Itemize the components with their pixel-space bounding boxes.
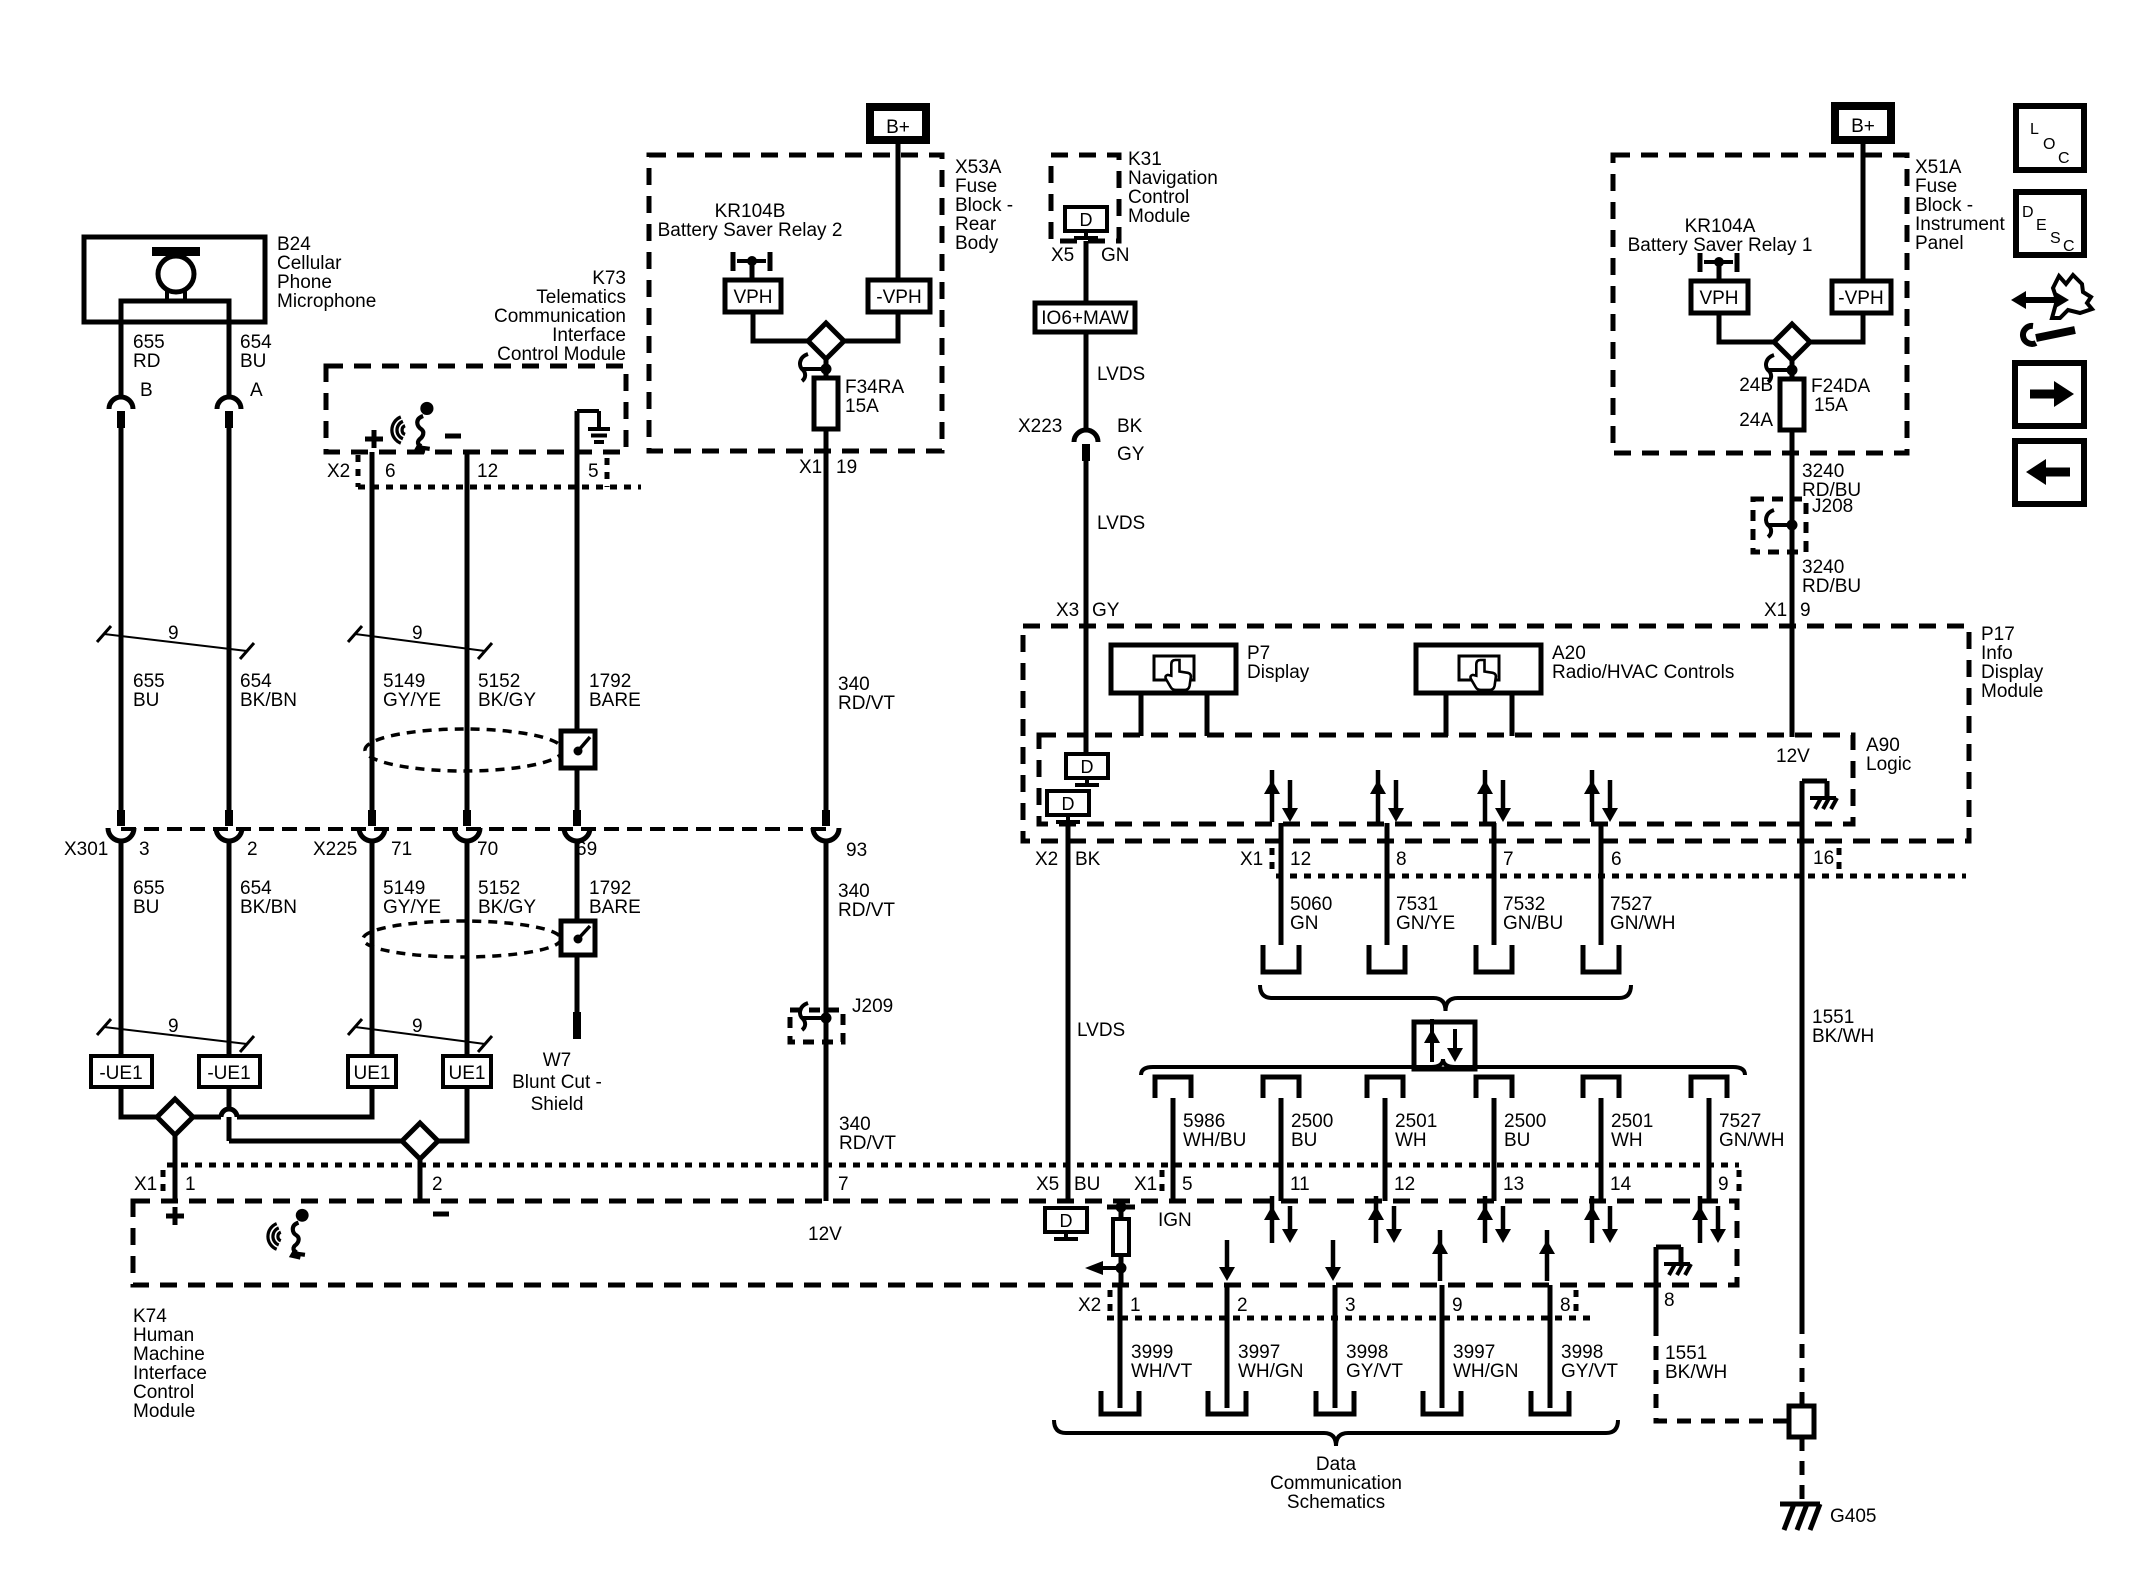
- svg-text:340: 340: [838, 881, 870, 902]
- wire 1792 BARE lower segment: [575, 842, 580, 1012]
- terminal above 5986 WH/BU pin 5: [1155, 1077, 1191, 1098]
- gathering brace lower: [1054, 1420, 1618, 1446]
- svg-text:5152: 5152: [478, 671, 520, 692]
- shield ellipse lower: [363, 921, 561, 957]
- svg-text:14: 14: [1610, 1174, 1632, 1195]
- svg-text:12V: 12V: [808, 1224, 842, 1245]
- svg-text:X2: X2: [1078, 1295, 1101, 1316]
- twisted pair mark upper left: [97, 626, 111, 642]
- svg-text:15A: 15A: [1814, 395, 1848, 416]
- svg-text:WH/VT: WH/VT: [1131, 1361, 1193, 1382]
- wire 7531 GN/YE: [1385, 823, 1390, 945]
- svg-text:9: 9: [1800, 600, 1811, 621]
- svg-text:-VPH: -VPH: [1838, 288, 1883, 309]
- relay output box -VPH: [868, 280, 930, 312]
- svg-text:Navigation: Navigation: [1128, 168, 1218, 189]
- svg-text:16: 16: [1813, 848, 1834, 869]
- wire -VPH to diamond: [844, 312, 898, 341]
- terminal above 2500 BU pin 11: [1263, 1077, 1299, 1098]
- svg-text:BU: BU: [133, 897, 159, 918]
- icon box DESC: [2016, 192, 2084, 255]
- svg-text:B+: B+: [886, 117, 910, 138]
- svg-text:BU: BU: [1504, 1130, 1530, 1151]
- svg-text:D: D: [1080, 210, 1093, 230]
- svg-text:B24: B24: [277, 234, 311, 255]
- arrow to display: [1103, 1266, 1121, 1270]
- svg-text:5149: 5149: [383, 878, 425, 899]
- svg-text:Control Module: Control Module: [497, 344, 626, 365]
- svg-text:X223: X223: [1018, 416, 1062, 437]
- svg-text:J209: J209: [852, 996, 893, 1017]
- wire 655 BU segment: [119, 428, 124, 810]
- microphone B24 box: [84, 237, 265, 322]
- terminal above 2501 WH pin 12: [1367, 1077, 1403, 1098]
- svg-text:GN: GN: [1101, 245, 1130, 266]
- svg-text:RD/VT: RD/VT: [838, 900, 895, 921]
- wire 2501 WH to X1 pin 14: [1599, 1098, 1604, 1201]
- svg-text:655: 655: [133, 878, 165, 899]
- wire 1551 BK/WH from pin8: [1654, 1285, 1659, 1322]
- wire A20 legs: [1444, 693, 1449, 736]
- svg-text:1792: 1792: [589, 878, 631, 899]
- logic A90 box: [1039, 735, 1853, 824]
- svg-text:GN: GN: [1290, 913, 1319, 934]
- wire 5152 BK/GY lower segment: [465, 842, 470, 1056]
- terminal of 7531: [1369, 945, 1405, 972]
- icon box LOC: [2016, 106, 2084, 170]
- svg-text:9: 9: [412, 1016, 423, 1037]
- wire 1792 BARE upper segment: [575, 411, 580, 731]
- svg-text:Panel: Panel: [1915, 233, 1964, 254]
- svg-text:K31: K31: [1128, 149, 1162, 170]
- svg-text:X3: X3: [1056, 600, 1079, 621]
- CAN arrows K74 at 1385: [1374, 1196, 1379, 1243]
- svg-text:Microphone: Microphone: [277, 291, 376, 312]
- display icon D1 in A90: [1066, 754, 1108, 778]
- terminal code box -UE1 (wire 654): [199, 1056, 260, 1087]
- terminal of 5060: [1263, 945, 1299, 972]
- touch icon P7: [1154, 656, 1194, 680]
- svg-text:F24DA: F24DA: [1811, 376, 1870, 397]
- svg-text:X1: X1: [1240, 849, 1263, 870]
- fuse block X53A box: [649, 155, 942, 451]
- relay coil KR104A: [1698, 253, 1703, 272]
- fuse F24DA 15A: [1780, 379, 1804, 430]
- svg-text:Machine: Machine: [133, 1344, 205, 1365]
- CAN arrows K74 at 1494: [1483, 1196, 1488, 1243]
- svg-text:1551: 1551: [1812, 1007, 1854, 1028]
- resistor element below IGN: [1119, 1201, 1124, 1219]
- junction J208 box: [1753, 499, 1806, 552]
- plus terminal K73: [365, 437, 383, 442]
- wire 7527 GN/WH: [1599, 823, 1604, 945]
- wire 7532 GN/BU: [1492, 823, 1497, 945]
- module K74 box: [133, 1201, 1737, 1285]
- touch icon A20: [1459, 656, 1499, 680]
- svg-text:P7: P7: [1247, 643, 1270, 664]
- svg-text:15A: 15A: [845, 396, 879, 417]
- svg-text:BK: BK: [1117, 416, 1143, 437]
- wire from UE1 5152 to diamond2: [438, 1087, 467, 1141]
- svg-text:13: 13: [1503, 1174, 1524, 1195]
- svg-text:8: 8: [1396, 849, 1407, 870]
- terminal of 7527: [1583, 945, 1619, 972]
- wire 655 RD segment: [119, 322, 124, 397]
- wire A90 pin16 internal: [1800, 781, 1805, 876]
- svg-text:2: 2: [247, 839, 258, 860]
- svg-text:654: 654: [240, 332, 272, 353]
- power feed B+ (IP): [1835, 106, 1891, 140]
- svg-text:B: B: [140, 380, 153, 401]
- wire 3998 GY/VT (data): [1333, 1285, 1338, 1408]
- inline connector at X225 pin71: [368, 810, 376, 826]
- svg-text:W7: W7: [543, 1050, 572, 1071]
- svg-text:6: 6: [1611, 849, 1622, 870]
- power feed B+ (rear): [870, 107, 926, 140]
- svg-text:GY: GY: [1092, 600, 1120, 621]
- svg-text:X5: X5: [1036, 1174, 1059, 1195]
- wire 5060 GN: [1279, 823, 1284, 945]
- relay contact KR104A: [1787, 365, 1798, 376]
- svg-text:6: 6: [385, 461, 396, 482]
- wire from 654 to diamond2: [229, 1139, 402, 1144]
- svg-text:12V: 12V: [1776, 746, 1810, 767]
- svg-text:GY/YE: GY/YE: [383, 690, 441, 711]
- svg-text:5: 5: [1182, 1174, 1193, 1195]
- splice box: [1789, 1406, 1814, 1437]
- wire K74 ground to pin 8: [1654, 1247, 1659, 1285]
- bus arrows A90 at 1601: [1590, 770, 1595, 822]
- junction dot IGN wire: [1116, 1263, 1127, 1274]
- svg-text:X1: X1: [799, 457, 822, 478]
- svg-text:C: C: [2058, 150, 2070, 167]
- svg-text:7527: 7527: [1719, 1111, 1761, 1132]
- svg-text:Battery Saver Relay 1: Battery Saver Relay 1: [1628, 235, 1813, 256]
- connector X1 strip of K74: [167, 1163, 1739, 1168]
- svg-text:2: 2: [1237, 1295, 1248, 1316]
- twisted pair mark upper right: [348, 626, 362, 642]
- svg-text:LVDS: LVDS: [1097, 513, 1145, 534]
- svg-text:Radio/HVAC Controls: Radio/HVAC Controls: [1552, 662, 1734, 683]
- wire fuse to X1 pin9: [1790, 430, 1795, 626]
- relay output box -VPH (right): [1832, 281, 1891, 313]
- svg-text:WH/GN: WH/GN: [1453, 1361, 1518, 1382]
- svg-text:12: 12: [477, 461, 498, 482]
- svg-text:Display: Display: [1247, 662, 1310, 683]
- svg-text:12: 12: [1394, 1174, 1415, 1195]
- svg-text:7: 7: [1503, 849, 1514, 870]
- svg-text:BU: BU: [133, 690, 159, 711]
- wire K31 X5 GN: [1084, 241, 1089, 303]
- svg-text:K74: K74: [133, 1306, 167, 1327]
- svg-text:Block -: Block -: [1915, 195, 1973, 216]
- svg-text:-UE1: -UE1: [207, 1063, 250, 1084]
- wire from -UE1 to junction: [121, 1087, 157, 1117]
- svg-text:A90: A90: [1866, 735, 1900, 756]
- svg-text:7531: 7531: [1396, 894, 1438, 915]
- svg-text:-VPH: -VPH: [876, 287, 921, 308]
- shield box upper: [561, 731, 595, 768]
- fuse F34RA 15A: [814, 378, 838, 429]
- twisted pair mark lower right: [348, 1019, 362, 1035]
- CAN arrows K74 at 1281: [1270, 1196, 1275, 1243]
- CAN arrows K74 at 1601: [1590, 1196, 1595, 1243]
- splice diamond X53A: [808, 323, 844, 359]
- svg-text:Schematics: Schematics: [1287, 1492, 1385, 1513]
- twisted pair mark lower left: [97, 1019, 111, 1035]
- connector X2 strip of K74: [1107, 1316, 1590, 1321]
- gathering brace upper: [1260, 985, 1631, 1011]
- module K73 box: [326, 366, 626, 452]
- svg-text:IGN: IGN: [1158, 1210, 1192, 1231]
- svg-text:2500: 2500: [1291, 1111, 1333, 1132]
- wire X2 BK from D2: [1066, 821, 1071, 1201]
- svg-text:655: 655: [133, 332, 165, 353]
- svg-text:3998: 3998: [1561, 1342, 1603, 1363]
- terminal of 3998 (data): [1316, 1391, 1354, 1414]
- svg-text:GY/VT: GY/VT: [1561, 1361, 1618, 1382]
- display icon D in K31: [1065, 207, 1107, 231]
- fuse block X51A box: [1613, 155, 1907, 453]
- svg-text:Body: Body: [955, 233, 999, 254]
- svg-text:X1: X1: [1764, 600, 1787, 621]
- svg-text:70: 70: [477, 839, 498, 860]
- wire splice to G405: [1800, 1437, 1805, 1502]
- svg-text:BK/GY: BK/GY: [478, 690, 536, 711]
- svg-text:3: 3: [139, 839, 150, 860]
- wire diamond1 to K74 pin1: [173, 1134, 178, 1201]
- icon box arrow right: [2015, 363, 2084, 426]
- svg-text:UE1: UE1: [449, 1063, 486, 1084]
- svg-text:Telematics: Telematics: [536, 287, 626, 308]
- svg-text:KR104A: KR104A: [1685, 216, 1756, 237]
- svg-text:Module: Module: [1981, 681, 2043, 702]
- svg-text:11: 11: [1290, 1174, 1310, 1195]
- svg-text:655: 655: [133, 671, 165, 692]
- wire 5986 WH/BU to X1 pin 5: [1171, 1098, 1176, 1201]
- svg-text:24B: 24B: [1739, 375, 1773, 396]
- terminal code box UE1 (wire 5149): [348, 1056, 396, 1087]
- IGN supply bar: [1107, 1205, 1135, 1210]
- svg-text:KR104B: KR104B: [715, 201, 786, 222]
- svg-text:VPH: VPH: [1699, 288, 1738, 309]
- wire 3240 into P17 to A90: [1790, 626, 1795, 737]
- svg-text:Control: Control: [1128, 187, 1189, 208]
- svg-text:5: 5: [588, 461, 599, 482]
- svg-text:Instrument: Instrument: [1915, 214, 2005, 235]
- terminal of 3997 (data): [1423, 1391, 1461, 1414]
- arrow down to pin 3: [1331, 1240, 1336, 1271]
- svg-text:340: 340: [839, 1114, 871, 1135]
- svg-text:GN/WH: GN/WH: [1610, 913, 1675, 934]
- terminal of 3997 (data): [1208, 1391, 1246, 1414]
- svg-text:BU: BU: [1291, 1130, 1317, 1151]
- svg-text:7: 7: [838, 1174, 849, 1195]
- svg-text:Rear: Rear: [955, 214, 997, 235]
- terminal of 3998 (data): [1531, 1391, 1569, 1414]
- svg-text:WH: WH: [1395, 1130, 1427, 1151]
- svg-text:Fuse: Fuse: [1915, 176, 1957, 197]
- svg-text:2500: 2500: [1504, 1111, 1546, 1132]
- wire B+ to -VPH (right): [1861, 140, 1866, 280]
- svg-text:S: S: [2050, 230, 2061, 247]
- terminal of 7532: [1476, 945, 1512, 972]
- shield ellipse upper: [365, 729, 563, 771]
- svg-text:X225: X225: [313, 839, 357, 860]
- inline connector at X225 pin70: [463, 810, 471, 826]
- svg-text:G405: G405: [1830, 1506, 1876, 1527]
- svg-text:LVDS: LVDS: [1077, 1020, 1125, 1041]
- svg-text:9: 9: [168, 623, 179, 644]
- bus arrows A90 at 1387: [1376, 770, 1381, 822]
- data link connector box: [1414, 1022, 1475, 1069]
- wire 654 BK/BN lower segment: [227, 842, 232, 1056]
- svg-text:GN/WH: GN/WH: [1719, 1130, 1784, 1151]
- svg-text:D: D: [1062, 794, 1075, 814]
- connector X2 strip of K73: [358, 485, 641, 490]
- minus terminal K73: [445, 434, 461, 439]
- svg-text:BK/BN: BK/BN: [240, 690, 297, 711]
- plus terminal K74: [166, 1214, 184, 1219]
- inline connector at X225 pin69: [573, 810, 581, 826]
- svg-text:Interface: Interface: [133, 1363, 207, 1384]
- icon box arrow left: [2015, 441, 2084, 504]
- svg-text:X2: X2: [1035, 849, 1058, 870]
- module P17 box: [1023, 626, 1969, 841]
- svg-text:Data: Data: [1316, 1454, 1357, 1475]
- svg-text:Phone: Phone: [277, 272, 332, 293]
- ground symbol in K74: [1656, 1245, 1681, 1250]
- svg-text:E: E: [2036, 217, 2047, 234]
- svg-text:2501: 2501: [1395, 1111, 1437, 1132]
- wire 5149 GY/YE lower segment: [370, 842, 375, 1056]
- svg-text:P17: P17: [1981, 624, 2015, 645]
- relay coil KR104B: [731, 252, 736, 271]
- connector on wire B: [109, 397, 133, 409]
- relay output box VPH: [725, 280, 781, 312]
- svg-text:BK/BN: BK/BN: [240, 897, 297, 918]
- svg-text:3240: 3240: [1802, 461, 1844, 482]
- svg-text:RD/VT: RD/VT: [838, 693, 895, 714]
- svg-text:1: 1: [185, 1174, 196, 1195]
- svg-text:X1: X1: [134, 1174, 157, 1195]
- inline connector at X301 pin3: [117, 810, 125, 826]
- controls A20 box: [1416, 645, 1541, 693]
- wire diamond to contact: [824, 359, 829, 378]
- svg-text:B+: B+: [1851, 116, 1875, 137]
- svg-text:1: 1: [1130, 1295, 1141, 1316]
- svg-text:3240: 3240: [1802, 557, 1844, 578]
- svg-text:K73: K73: [592, 268, 626, 289]
- svg-text:1792: 1792: [589, 671, 631, 692]
- wire B+ to -VPH: [896, 140, 901, 280]
- svg-text:Module: Module: [1128, 206, 1190, 227]
- display icon D in K74: [1045, 1208, 1087, 1232]
- junction J208 contact: [1787, 520, 1798, 531]
- bus arrows A90 at 1494: [1483, 770, 1488, 822]
- terminal above 2500 BU pin 13: [1476, 1077, 1512, 1098]
- connector on wire A: [217, 397, 241, 409]
- svg-text:GN/YE: GN/YE: [1396, 913, 1455, 934]
- svg-text:UE1: UE1: [354, 1063, 391, 1084]
- svg-text:12: 12: [1290, 849, 1311, 870]
- svg-text:BK/WH: BK/WH: [1812, 1026, 1874, 1047]
- svg-text:9: 9: [1452, 1295, 1463, 1316]
- svg-text:RD/BU: RD/BU: [1802, 576, 1861, 597]
- arrow down to pin 2: [1225, 1240, 1230, 1271]
- wire fuse to X1 pin19: [824, 429, 829, 810]
- terminal code box -UE1 (wire 655): [91, 1056, 152, 1087]
- blunt cut terminal W7: [573, 1012, 581, 1039]
- svg-text:3999: 3999: [1131, 1342, 1173, 1363]
- svg-text:-UE1: -UE1: [99, 1063, 142, 1084]
- svg-text:93: 93: [846, 840, 867, 861]
- CAN arrows K74 at 1709: [1698, 1196, 1703, 1243]
- connector row X301-X225 dashed line: [121, 827, 826, 831]
- minus terminal K74: [433, 1212, 449, 1217]
- splice diamond left: [157, 1099, 193, 1135]
- svg-text:8: 8: [1664, 1290, 1675, 1311]
- wire -VPH to diamond (right): [1810, 313, 1863, 342]
- wire 5152 BK/GY upper segment: [465, 452, 470, 810]
- svg-text:1551: 1551: [1665, 1343, 1707, 1364]
- svg-text:D: D: [1081, 757, 1094, 777]
- svg-text:Shield: Shield: [531, 1094, 584, 1115]
- svg-text:D: D: [1060, 1211, 1073, 1231]
- svg-text:D: D: [2022, 204, 2034, 221]
- svg-text:X5: X5: [1051, 245, 1074, 266]
- wire 340 RD/VT to J209: [824, 842, 829, 1201]
- svg-text:GN/BU: GN/BU: [1503, 913, 1563, 934]
- svg-text:3997: 3997: [1453, 1342, 1495, 1363]
- svg-text:654: 654: [240, 671, 272, 692]
- wire 3997 WH/GN (data): [1225, 1285, 1230, 1408]
- ground symbol in A90: [1802, 779, 1827, 784]
- microphone element icon: [152, 247, 200, 256]
- wire diamond to contact (right): [1790, 360, 1795, 379]
- wire diamond2 to K74 pin2: [418, 1159, 423, 1201]
- svg-text:X1: X1: [1134, 1174, 1157, 1195]
- arrow up from pin 9: [1438, 1230, 1443, 1281]
- wire VPH to diamond: [753, 312, 808, 341]
- svg-text:8: 8: [1560, 1295, 1571, 1316]
- connector X1 strip of A90: [1276, 874, 1966, 879]
- svg-text:Communication: Communication: [494, 306, 626, 327]
- connector X223: [1074, 430, 1098, 442]
- B24 internal bus wire: [121, 301, 229, 322]
- expanding brace upper: [1141, 1059, 1745, 1075]
- terminal above 2501 WH pin 14: [1583, 1077, 1619, 1098]
- inline connector at X225 pin93: [822, 810, 830, 826]
- svg-text:Interface: Interface: [552, 325, 626, 346]
- wire LVDS lower: [1084, 461, 1089, 754]
- wire 1551 dashed to splice: [1800, 1320, 1805, 1406]
- splice diamond X51A: [1774, 324, 1810, 360]
- wire 3998 GY/VT (data): [1548, 1285, 1553, 1408]
- svg-text:BARE: BARE: [589, 690, 641, 711]
- ground G405: [1780, 1502, 1820, 1507]
- svg-text:Control: Control: [133, 1382, 194, 1403]
- svg-text:Info: Info: [1981, 643, 2013, 664]
- svg-text:2: 2: [432, 1174, 443, 1195]
- svg-text:GY: GY: [1117, 444, 1145, 465]
- bus arrows A90 at 1281: [1270, 770, 1275, 822]
- svg-text:X51A: X51A: [1915, 157, 1962, 178]
- svg-text:RD/VT: RD/VT: [839, 1133, 896, 1154]
- svg-text:A: A: [250, 380, 263, 401]
- display icon D2 in A90: [1047, 791, 1089, 815]
- svg-text:9: 9: [1718, 1174, 1729, 1195]
